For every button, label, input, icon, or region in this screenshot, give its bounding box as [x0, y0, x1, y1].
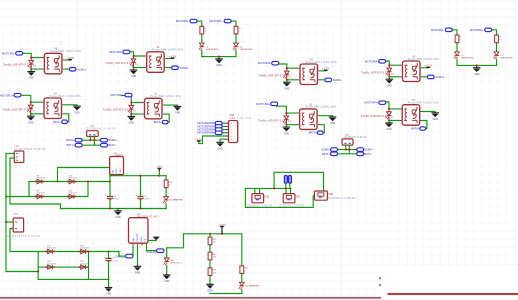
svg-text:VIN: VIN — [133, 237, 135, 241]
svg-text:TN4007W: TN4007W — [80, 263, 89, 265]
svg-text:MOTOR4+: MOTOR4+ — [364, 101, 378, 105]
svg-text:1000uF: 1000uF — [113, 198, 121, 200]
svg-text:BAT4+: BAT4+ — [411, 127, 420, 131]
svg-text:TN4007W: TN4007W — [37, 193, 46, 195]
svg-text:MOTOR2+: MOTOR2+ — [110, 93, 124, 97]
svg-text:SCM1+: SCM1+ — [77, 67, 86, 71]
svg-text:SCM1+: SCM1+ — [66, 138, 75, 142]
svg-text:SCM3+: SCM3+ — [333, 78, 342, 82]
svg-text:SCM4+: SCM4+ — [364, 148, 373, 152]
svg-text:TN4007W: TN4007W — [47, 263, 56, 265]
svg-text:SCM2+: SCM2+ — [108, 138, 117, 142]
svg-text:CN1: CN1 — [90, 125, 95, 127]
svg-text:1000uF: 1000uF — [111, 260, 119, 262]
svg-text:MOTOR2-: MOTOR2- — [109, 50, 122, 54]
svg-text:TN4007W: TN4007W — [47, 248, 56, 250]
svg-text:MOTOR4PWM: MOTOR4PWM — [197, 131, 214, 135]
svg-text:SCM3+: SCM3+ — [321, 148, 330, 152]
svg-text:TN4007W: TN4007W — [69, 193, 78, 195]
svg-text:BAT1+: BAT1+ — [67, 143, 75, 147]
svg-text:MOTOR5+: MOTOR5+ — [209, 19, 223, 23]
svg-text:MOTOR1+: MOTOR1+ — [0, 93, 14, 97]
svg-text:CN7: CN7 — [296, 196, 301, 198]
svg-text:SCM2+: SCM2+ — [180, 66, 189, 70]
svg-text:5V4L3D: 5V4L3D — [147, 250, 157, 254]
svg-text:DC3500VC 0.08-2P: DC3500VC 0.08-2P — [279, 206, 304, 208]
svg-text:MOTOR5-: MOTOR5- — [176, 19, 189, 23]
svg-text:DC5500VC 0.08-2P: DC5500VC 0.08-2P — [87, 128, 116, 130]
svg-text:BAT2+: BAT2+ — [108, 143, 116, 147]
svg-text:CN4: CN4 — [13, 213, 18, 215]
svg-text:MOTOR4-: MOTOR4- — [365, 59, 378, 63]
svg-text:BAT2+: BAT2+ — [154, 120, 163, 124]
svg-text:MOTOR6+: MOTOR6+ — [470, 28, 484, 32]
svg-text:ON/OFF: ON/OFF — [137, 233, 139, 242]
svg-text:CN3: CN3 — [14, 146, 19, 148]
svg-text:BAT1+: BAT1+ — [53, 120, 62, 124]
svg-text:GND: GND — [116, 168, 118, 173]
svg-text:TN4007W: TN4007W — [37, 178, 46, 180]
svg-text:L7805CV: L7805CV — [114, 155, 124, 157]
svg-text:MOTOR3+: MOTOR3+ — [256, 102, 270, 106]
svg-text:DC5500VC 0.08-2P: DC5500VC 0.08-2P — [344, 137, 366, 139]
svg-text:DC3500VC 0.08-2P: DC3500VC 0.08-2P — [247, 206, 272, 208]
svg-text:L12 GRB BP-RED: L12 GRB BP-RED — [245, 286, 260, 288]
svg-text:L10 GRB BP-RED: L10 GRB BP-RED — [169, 200, 183, 202]
svg-text:BAT3+: BAT3+ — [322, 152, 330, 156]
svg-text:BAT3+: BAT3+ — [309, 131, 318, 135]
svg-text:VOUT: VOUT — [120, 167, 122, 174]
svg-text:AL-DL250VZ 0.08-3P: AL-DL250VZ 0.08-3P — [14, 148, 45, 151]
svg-text:GND: GND — [141, 236, 143, 241]
svg-text:MOTOR6-: MOTOR6- — [431, 28, 444, 32]
svg-text:MOTOR3-: MOTOR3- — [258, 61, 271, 65]
svg-text:CN2: CN2 — [344, 134, 349, 136]
svg-text:MOTOR1-: MOTOR1- — [2, 51, 15, 55]
svg-text:SCM4+: SCM4+ — [435, 75, 444, 79]
svg-text:CN8: CN8 — [328, 194, 333, 196]
svg-text:TN4007W: TN4007W — [69, 178, 78, 180]
svg-text:VIN: VIN — [113, 169, 115, 173]
svg-text:LM2596S-5T ADJ: LM2596S-5T ADJ — [137, 215, 159, 218]
svg-text:DC3500VC 0.08-2P: DC3500VC 0.08-2P — [328, 198, 355, 200]
svg-text:TN4007W: TN4007W — [80, 248, 89, 250]
svg-text:1000uF: 1000uF — [143, 198, 151, 200]
svg-text:AL-DL250VZ 0.08-3P: AL-DL250VZ 0.08-3P — [7, 235, 40, 238]
svg-text:BAT4+: BAT4+ — [364, 152, 372, 156]
svg-text:DB9 8-IN 2.54: DB9 8-IN 2.54 — [230, 117, 252, 120]
svg-text:CN6: CN6 — [264, 196, 269, 198]
svg-text:WDETR6_1: WDETR6_1 — [170, 263, 183, 265]
